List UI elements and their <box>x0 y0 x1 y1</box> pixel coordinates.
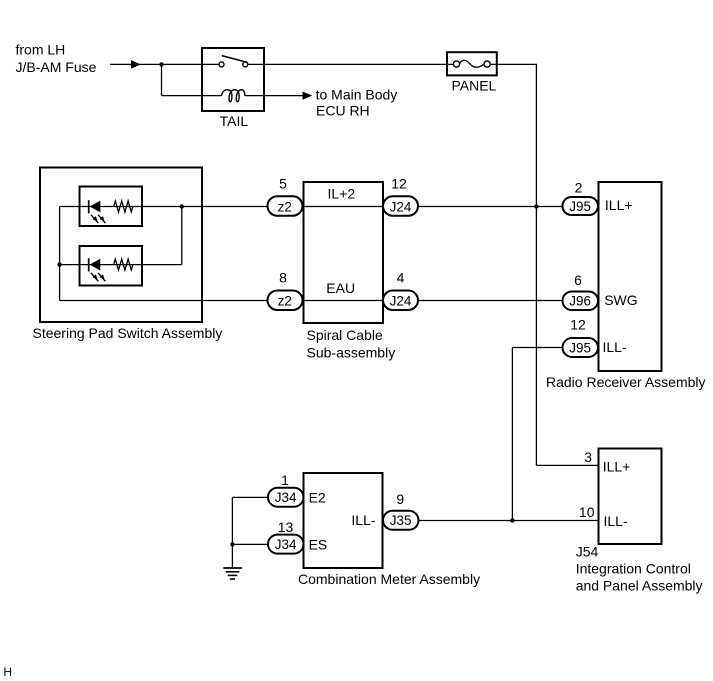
label Spiral Cable Sub-assembly <box>307 327 396 360</box>
arrow to Main Body ECU <box>303 92 313 100</box>
connector z2 pin 5 <box>268 196 303 216</box>
svg-text:TAIL: TAIL <box>220 113 249 129</box>
svg-text:from LH: from LH <box>16 42 66 58</box>
svg-text:IL+2: IL+2 <box>328 186 356 202</box>
svg-text:ILL-: ILL- <box>603 339 627 355</box>
svg-text:ES: ES <box>309 537 328 553</box>
svg-text:SWG: SWG <box>604 292 637 308</box>
svg-text:Spiral Cable: Spiral Cable <box>307 327 383 343</box>
junction dot ground branch <box>230 542 234 546</box>
connector J24 pin 4 <box>383 291 418 311</box>
svg-text:9: 9 <box>396 491 404 507</box>
connector J96 pin 6 <box>563 292 599 311</box>
connector J95 pin 2 <box>563 197 599 215</box>
fuse PANEL box <box>447 52 497 75</box>
LED D2 <box>89 258 106 281</box>
arrow into wire <box>131 60 141 69</box>
svg-text:ILL+: ILL+ <box>603 459 631 475</box>
wire branch down to relay coil <box>162 64 222 95</box>
svg-text:Combination Meter Assembly: Combination Meter Assembly <box>298 571 480 587</box>
wire meter E2 to ground <box>232 497 268 568</box>
svg-text:H: H <box>3 665 12 679</box>
svg-text:J96: J96 <box>569 294 591 309</box>
Steering Pad Switch Assembly box <box>40 168 202 323</box>
svg-text:J35: J35 <box>390 513 412 528</box>
svg-text:ILL+: ILL+ <box>605 197 633 213</box>
connector J24 pin 12 <box>383 196 418 216</box>
svg-text:J24: J24 <box>390 199 412 214</box>
svg-text:EAU: EAU <box>326 280 355 296</box>
wire relay switch to PANEL fuse <box>264 63 447 65</box>
resistor R1 <box>114 201 133 212</box>
svg-text:6: 6 <box>574 272 582 288</box>
LED D1 <box>89 200 106 223</box>
connector J95 pin 12 <box>563 338 599 357</box>
wire EAU row <box>60 300 563 302</box>
svg-text:3: 3 <box>584 449 592 465</box>
wire from fuse label to TAIL relay <box>110 63 202 65</box>
svg-text:E2: E2 <box>309 490 326 506</box>
wire relay coil to Main Body ECU <box>264 95 304 97</box>
svg-text:12: 12 <box>391 176 407 192</box>
svg-text:J34: J34 <box>275 537 297 552</box>
junction dot A <box>159 62 163 66</box>
Combination Meter Assembly box <box>304 473 383 568</box>
junction dot on ILL+ wire <box>534 204 538 208</box>
junction dot ILL- <box>510 518 514 522</box>
svg-text:J/B-AM Fuse: J/B-AM Fuse <box>16 59 97 75</box>
svg-text:J95: J95 <box>569 199 591 214</box>
wire PANEL fuse down to radio ILL+ and J54 ILL+ <box>497 64 599 465</box>
connector J35 pin 9 <box>383 511 419 530</box>
svg-text:Radio Receiver Assembly: Radio Receiver Assembly <box>546 374 706 390</box>
Spiral Cable Sub-assembly box <box>304 182 384 323</box>
label to Main Body ECU RH <box>316 86 398 118</box>
svg-text:Integration Control: Integration Control <box>576 561 691 577</box>
J54 Integration Control box <box>599 449 662 545</box>
svg-text:J34: J34 <box>275 490 297 505</box>
svg-text:12: 12 <box>570 317 586 333</box>
svg-text:PANEL: PANEL <box>451 78 496 94</box>
svg-text:to Main Body: to Main Body <box>316 86 398 102</box>
wire IL+2 row <box>60 206 563 208</box>
svg-text:2: 2 <box>575 179 583 195</box>
svg-text:J24: J24 <box>390 294 412 309</box>
svg-text:10: 10 <box>579 504 595 520</box>
svg-text:Steering Pad Switch Assembly: Steering Pad Switch Assembly <box>33 325 223 341</box>
Radio Receiver Assembly box <box>599 182 662 371</box>
svg-text:and Panel Assembly: and Panel Assembly <box>576 578 703 594</box>
junction dot lower LED left <box>57 262 61 266</box>
svg-text:ECU RH: ECU RH <box>316 103 370 119</box>
resistor R2 <box>114 259 133 270</box>
svg-text:z2: z2 <box>278 199 292 214</box>
svg-text:J95: J95 <box>569 340 591 355</box>
relay TAIL coil <box>221 90 264 102</box>
svg-text:4: 4 <box>397 270 405 286</box>
svg-text:J54: J54 <box>576 544 599 560</box>
wire lower LED row <box>60 264 182 266</box>
wire right vertical inside steering pad <box>181 207 183 265</box>
ground <box>223 568 242 579</box>
fuse PANEL element <box>447 60 497 67</box>
connector J34 pin 13 <box>268 535 304 554</box>
junction dot upper LED right <box>180 204 184 208</box>
wire J95 pin12 to ILL- junction <box>512 348 562 521</box>
svg-text:ILL-: ILL- <box>604 513 628 529</box>
relay TAIL switch contact <box>202 56 264 67</box>
wire ILL- row meter to J54 <box>419 520 599 522</box>
connector J34 pin 1 <box>268 488 304 507</box>
relay TAIL box <box>202 48 264 111</box>
wire left vertical inside steering pad <box>59 207 61 301</box>
LED unit 2 box <box>80 246 143 286</box>
connector z2 pin 8 <box>268 291 303 311</box>
svg-text:8: 8 <box>279 270 287 286</box>
svg-text:13: 13 <box>278 519 294 535</box>
svg-text:5: 5 <box>279 176 287 192</box>
label J54 Integration Control and Panel Assembly <box>576 544 703 594</box>
LED unit 1 box <box>80 187 143 227</box>
svg-text:z2: z2 <box>278 294 292 309</box>
svg-text:ILL-: ILL- <box>351 512 375 528</box>
svg-text:Sub-assembly: Sub-assembly <box>307 344 396 360</box>
svg-text:1: 1 <box>281 472 289 488</box>
label: from LH J/B-AM Fuse <box>16 42 97 75</box>
